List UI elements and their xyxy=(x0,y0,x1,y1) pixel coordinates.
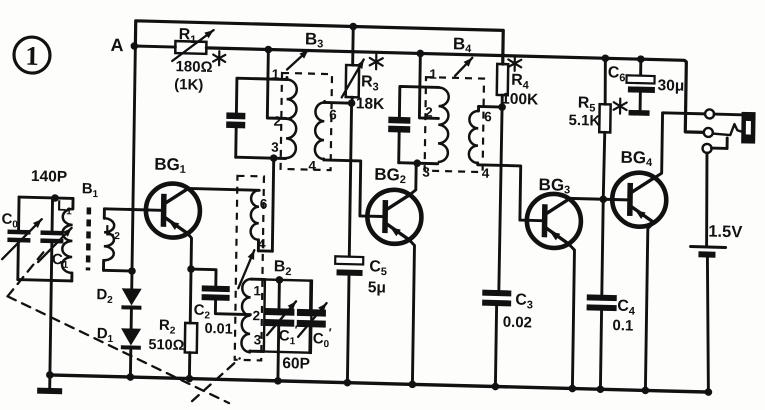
capacitor C6 (electrolytic 30u) xyxy=(626,59,655,111)
wire B2 pin4 to B3 pin3 xyxy=(272,158,273,251)
jack spring contact xyxy=(713,124,743,136)
junction R4 bottom xyxy=(498,103,506,111)
label 510 xyxy=(148,337,184,354)
core adjust arrow B4 xyxy=(455,57,472,76)
svg-text:1.5V: 1.5V xyxy=(708,223,742,242)
wire BG1 emitter down xyxy=(187,233,192,269)
wire jack to battery xyxy=(706,153,708,246)
label 30u xyxy=(657,77,684,95)
wire B3 pin3 xyxy=(236,157,286,158)
wire R2 to bottom rail xyxy=(188,353,191,379)
label B3 xyxy=(305,29,324,50)
svg-text:510Ω: 510Ω xyxy=(148,337,184,354)
junction box top xyxy=(276,276,284,284)
label C2 xyxy=(194,302,211,321)
capacitor across B4 primary xyxy=(388,117,410,133)
label 5u xyxy=(368,279,386,296)
label pin 2 xyxy=(252,308,260,323)
svg-text:6: 6 xyxy=(484,109,492,124)
svg-text:1: 1 xyxy=(25,41,39,71)
earphone plug xyxy=(741,112,755,144)
gang coupling dashed line rise xyxy=(192,357,240,402)
inductor B4 secondary xyxy=(469,106,479,163)
resistor R5 (5.1K) xyxy=(598,58,611,199)
label 5.1K xyxy=(568,112,600,130)
label C0 xyxy=(1,211,18,230)
wire R3 node down to C5 xyxy=(349,103,351,260)
junction bottom rail / BG2 e xyxy=(409,380,417,388)
label B4 pin4 xyxy=(482,166,490,181)
gang coupling dashed line up xyxy=(8,250,45,297)
svg-text:4: 4 xyxy=(308,158,316,173)
junction top rail / R3 xyxy=(349,23,357,31)
jack tip contact xyxy=(705,109,714,118)
ground symbol xyxy=(37,375,62,395)
wire tip to plug xyxy=(714,113,742,117)
wire R5 node down to C4 xyxy=(602,199,603,295)
label (1K) xyxy=(174,76,203,94)
label B4 pin2 xyxy=(425,105,433,120)
wire C2 to B2 tap xyxy=(215,301,250,315)
junction bottom rail / BG4 e xyxy=(642,387,650,395)
svg-text:3: 3 xyxy=(254,332,262,347)
inductor B3 secondary xyxy=(315,101,325,159)
label pin 1 xyxy=(253,283,261,298)
label 18K xyxy=(356,95,385,113)
junction BG1 emitter / C2 xyxy=(187,265,195,273)
wire BG4 collector to jack tip xyxy=(655,113,705,179)
label 140P xyxy=(31,168,67,186)
junction bottom rail / R2 xyxy=(186,375,194,383)
wire tank top xyxy=(19,197,73,198)
inductor B2 feedback winding xyxy=(250,190,273,251)
label B4 pin3 xyxy=(422,165,430,180)
junction B3 pin3 xyxy=(270,154,278,162)
wire B3 pin6 to R3 xyxy=(325,101,352,105)
label 180ohm xyxy=(175,50,225,76)
ground bar C6 xyxy=(629,110,650,116)
capacitor C3 (0.02) xyxy=(481,290,511,387)
junction bottom rail / C3 xyxy=(492,383,500,391)
svg-text:2: 2 xyxy=(425,105,433,120)
svg-text:100K: 100K xyxy=(501,91,539,109)
wire B4 pin3 xyxy=(399,163,438,164)
label 60P xyxy=(282,355,310,373)
svg-text:(1K): (1K) xyxy=(174,76,203,94)
svg-text:A: A xyxy=(110,35,123,55)
capacitor C0 (variable tuning) xyxy=(2,197,42,281)
gang coupling dashed line down xyxy=(6,296,231,403)
label B3 pin4 xyxy=(308,158,316,173)
wire BG4 emitter to rail xyxy=(645,222,654,390)
svg-text:1: 1 xyxy=(253,283,261,298)
svg-text:140P: 140P xyxy=(31,168,67,186)
wire BG2 emitter to rail xyxy=(407,240,415,385)
capacitor across B3 primary xyxy=(226,112,245,128)
svg-text:30μ: 30μ xyxy=(657,77,684,95)
label B3 pin2 xyxy=(273,114,281,129)
resistor R2 xyxy=(185,323,197,353)
resistor R1 (variable, 180ohm) xyxy=(172,29,213,62)
label 1.5V xyxy=(708,223,742,242)
wire tank bottom xyxy=(18,280,72,281)
wire BG3 collector to BG4 base xyxy=(569,198,627,200)
node A xyxy=(110,35,138,56)
label C1p xyxy=(279,322,298,346)
label C0p xyxy=(313,325,332,349)
label R4 xyxy=(508,56,530,92)
transistor BG2 xyxy=(367,189,422,244)
wire top rail xyxy=(135,21,503,64)
core adjust arrow B3 xyxy=(287,49,308,70)
svg-text:5μ: 5μ xyxy=(368,279,386,296)
capacitor C0p (variable) xyxy=(296,280,327,353)
svg-text:4: 4 xyxy=(258,236,266,251)
svg-text:6: 6 xyxy=(329,107,337,122)
label D2 xyxy=(96,286,113,305)
label BG3 xyxy=(538,175,570,196)
label R2 xyxy=(159,317,176,336)
label pin 4 xyxy=(258,236,266,251)
wire B4 pin6 to R4 xyxy=(479,105,503,109)
wire supply rail (R1 to jack) xyxy=(205,48,705,132)
junction R5 bottom xyxy=(599,195,607,203)
svg-text:60P: 60P xyxy=(282,355,310,373)
wire cap to pin3 wire xyxy=(234,128,237,157)
diode D1 xyxy=(121,328,141,350)
svg-text:4: 4 xyxy=(482,166,490,181)
oscillator cap box xyxy=(264,279,312,352)
svg-text:18K: 18K xyxy=(356,95,385,113)
junction bottom rail / diodes xyxy=(127,373,135,381)
transistor BG3 xyxy=(526,193,581,248)
transformer B3 shield (dashed) xyxy=(281,73,332,170)
wire rail to B3 tap xyxy=(267,49,287,118)
junction bottom rail / C4 xyxy=(597,385,605,393)
label pin 6 xyxy=(260,196,268,211)
diode D2 xyxy=(121,288,141,310)
label L2 xyxy=(105,222,120,241)
jack switch contact xyxy=(702,137,727,153)
label B1 xyxy=(82,180,99,199)
wire junction to D2 xyxy=(130,271,133,289)
capacitor C4 (0.1) xyxy=(585,294,616,389)
junction bottom rail / C5 xyxy=(344,379,352,387)
svg-text:180Ω: 180Ω xyxy=(175,58,212,76)
label 100K xyxy=(501,91,539,109)
transformer B4 shield (dashed) xyxy=(425,77,484,172)
label C6 xyxy=(608,64,626,84)
inductor B4 primary xyxy=(438,87,449,162)
junction rail/R5 xyxy=(602,54,610,62)
wire B3 pin1 left xyxy=(236,78,287,114)
transistor BG4 xyxy=(612,172,667,227)
junction L2/diodes xyxy=(128,267,136,275)
svg-text:′: ′ xyxy=(329,326,332,340)
transistor BG1 xyxy=(146,183,201,238)
wire emitter to R2 xyxy=(189,269,193,323)
capacitor C1 (trimmer) xyxy=(38,198,72,281)
wire L2 to BG1 base xyxy=(104,209,161,210)
junction tank top xyxy=(51,194,59,202)
junction bottom rail / osc box xyxy=(274,377,282,385)
resistor R4 (100K) xyxy=(497,64,509,107)
wire R4 node down to C3 xyxy=(499,107,502,290)
wire cap to pin3 wire B4 xyxy=(397,132,400,162)
capacitor C5 (electrolytic 5u) xyxy=(333,256,363,383)
wire box to bottom rail xyxy=(276,352,279,381)
inductor B2 tank winding xyxy=(241,279,265,353)
label B4 pin1 xyxy=(429,67,437,82)
wire BG1 collector to B2 winding xyxy=(188,188,259,190)
junction rail/B3 feed xyxy=(265,46,273,54)
wire node A down to L2 junction xyxy=(132,46,135,271)
wire B4 pin1 left xyxy=(399,86,438,118)
svg-text:3: 3 xyxy=(422,165,430,180)
label C5 xyxy=(369,258,387,278)
svg-text:0.02: 0.02 xyxy=(503,314,532,332)
battery 1.5V xyxy=(688,247,725,393)
wire rail to B4 tap xyxy=(419,53,439,118)
junction rail/C6 xyxy=(637,55,645,63)
junction rail/B4 feed xyxy=(417,50,425,58)
core adjust arrow B2 xyxy=(238,250,254,289)
label R3 xyxy=(361,54,383,94)
label 0.02 xyxy=(503,314,532,332)
wire B3 pin4 to BG2 base xyxy=(323,159,383,217)
svg-text:5.1K: 5.1K xyxy=(568,112,600,130)
label D1 xyxy=(97,325,114,344)
jack ring contact xyxy=(704,128,713,137)
svg-text:6: 6 xyxy=(260,196,268,211)
inductor L2 (B1 secondary) xyxy=(103,209,132,271)
svg-text:2: 2 xyxy=(273,114,281,129)
label B4 pin6 xyxy=(484,109,492,124)
wire BG3 emitter to rail xyxy=(566,244,574,389)
transformer B1 core xyxy=(86,207,91,270)
wire D1 to bottom rail xyxy=(129,350,132,378)
label BG1 xyxy=(154,155,186,176)
label R1 xyxy=(179,26,197,46)
label B3 pin6 xyxy=(329,107,337,122)
wire supply rail left (A to R1) xyxy=(134,46,175,47)
svg-text:3: 3 xyxy=(271,140,279,155)
wire to C2 xyxy=(191,269,216,286)
label 0.01 xyxy=(204,321,232,338)
label L1 xyxy=(57,198,72,217)
wire D2-D1 xyxy=(130,310,133,329)
resistor R3 (18K) xyxy=(342,26,365,103)
inductor L1 (B1 primary) xyxy=(62,198,73,281)
wire B4 pin4 to BG3 base xyxy=(477,163,543,221)
svg-text:0.1: 0.1 xyxy=(612,317,633,335)
capacitor C1p (variable) xyxy=(265,280,297,353)
junction bottom rail / battery xyxy=(705,388,713,396)
label B4 xyxy=(453,34,473,55)
junction R3 bottom xyxy=(348,99,356,107)
label B3 pin1 xyxy=(272,67,280,82)
label BG4 xyxy=(620,148,653,169)
label B2 xyxy=(274,258,292,278)
label C3 xyxy=(515,292,533,312)
svg-text:2: 2 xyxy=(252,308,260,323)
label B3 pin3 xyxy=(271,140,279,155)
transformer B2 shield (dashed) xyxy=(235,176,264,361)
inductor B3 primary xyxy=(286,77,297,158)
label BG2 xyxy=(374,165,406,186)
junction bottom rail / gnd xyxy=(46,371,54,379)
capacitor C2 xyxy=(202,285,230,301)
label C4 xyxy=(617,298,636,318)
junction bottom rail / BG3 e xyxy=(569,385,577,393)
svg-text:1: 1 xyxy=(429,67,437,82)
wire bottom rail (ground bus) xyxy=(49,375,711,392)
label 0.1 xyxy=(612,317,633,335)
figure number 1 (circled) xyxy=(14,37,51,74)
wire BG2 collector to B4 xyxy=(410,163,416,195)
label R5 xyxy=(578,95,627,116)
label C1 xyxy=(52,251,69,270)
svg-text:0.01: 0.01 xyxy=(204,321,232,338)
junction B4 pin3 / BG2 collector xyxy=(413,159,421,167)
label pin 3 xyxy=(254,332,262,347)
wire tank to ground rail xyxy=(50,280,51,375)
